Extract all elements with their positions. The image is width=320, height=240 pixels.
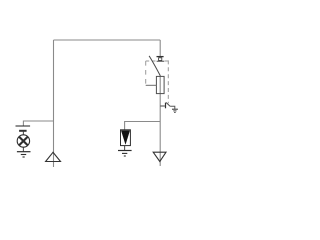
- earth contact fixed bar: [165, 103, 167, 109]
- ground left: [17, 152, 31, 157]
- thermal cutout enclosure (dashed box): [146, 60, 169, 103]
- wire lever to ground right: [170, 106, 175, 109]
- battery cell: [16, 126, 31, 131]
- wire right rail upper: [159, 40, 161, 56]
- equipotentiality triangle left (apex up): [46, 152, 61, 161]
- switch lever: [149, 56, 160, 76]
- ground middle: [118, 151, 132, 157]
- switch actuator square: [159, 58, 162, 61]
- ground right: [172, 109, 178, 112]
- wire left rail vertical: [53, 40, 55, 167]
- equipotentiality triangle right (apex down): [153, 152, 166, 161]
- wire arrester to ground: [124, 146, 126, 151]
- heater resistor: [156, 76, 164, 93]
- earth contact lever: [166, 103, 170, 107]
- wire branch to earth contact: [160, 105, 165, 107]
- switch actuator bar: [157, 56, 164, 58]
- switch actuator lower bar: [157, 60, 165, 62]
- wire right rail lower: [159, 76, 161, 167]
- wire top horizontal: [54, 39, 161, 41]
- wire battery to lamp: [22, 132, 24, 135]
- resistor tap to enclosure: [146, 84, 157, 86]
- lamp: [17, 135, 29, 147]
- surge arrester (boxed diode): [121, 130, 131, 146]
- wire middle branch to arrester: [125, 122, 161, 130]
- wire left branch to battery: [23, 121, 53, 126]
- wire lamp to ground: [22, 147, 24, 151]
